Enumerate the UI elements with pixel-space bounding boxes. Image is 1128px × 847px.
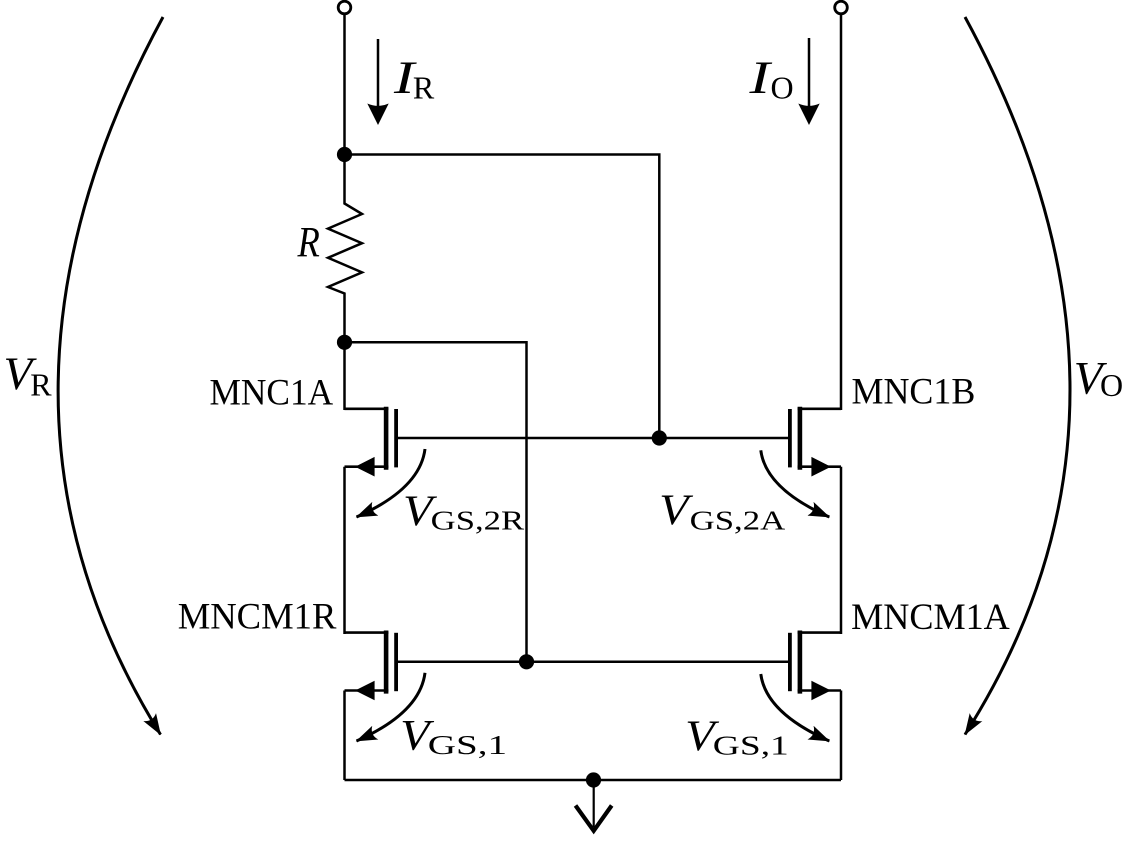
label I_R [393, 51, 435, 106]
wire node B to gate row 2 (second horizontal + mid vertical) [345, 342, 527, 662]
label V_GS,2A [659, 485, 786, 535]
terminal right [835, 1, 848, 14]
svg-text:R: R [413, 70, 435, 106]
wire gate row 1 [396, 437, 790, 440]
label R [297, 218, 320, 266]
vgs arrow 1 right [761, 674, 830, 741]
resistor R [328, 155, 362, 343]
svg-text:O: O [1100, 367, 1123, 403]
current arrow IO [798, 38, 819, 125]
vgs arrow 1 left [357, 673, 426, 741]
wire left top [343, 15, 346, 155]
svg-text:I: I [748, 51, 773, 104]
svg-text:GS,1: GS,1 [428, 730, 507, 760]
wire right column mid [840, 467, 843, 634]
wire left column to MNC1A [343, 342, 346, 410]
label V_GS,1 left [400, 711, 507, 760]
label I_O [748, 51, 793, 106]
voltage arc VR [58, 17, 163, 735]
svg-text:GS,2R: GS,2R [431, 506, 524, 536]
wire right column [840, 15, 843, 411]
wire gate row 2 [396, 661, 790, 664]
vgs arrow 2R [357, 449, 426, 517]
current arrow IR [367, 39, 388, 125]
voltage arc VO [965, 17, 1070, 735]
label V_GS,1 right [685, 711, 789, 760]
wire bottom rail [345, 779, 842, 782]
svg-text:MNCM1A: MNCM1A [851, 597, 1010, 638]
transistor MNCM1A [790, 631, 841, 701]
svg-text:GS,1: GS,1 [713, 730, 789, 760]
transistor MNC1B [790, 407, 841, 477]
node dot gate row 2 [519, 654, 534, 669]
transistor MNC1A [345, 407, 397, 477]
vgs arrow 2A [761, 450, 830, 517]
svg-text:R: R [30, 367, 52, 403]
wire left column bottom [343, 691, 346, 781]
wire right column bottom [840, 691, 843, 781]
ground arrow [576, 780, 612, 831]
svg-text:MNCM1R: MNCM1R [178, 597, 337, 638]
node dot gate row 1 [652, 430, 667, 445]
transistor MNCM1R [345, 631, 397, 701]
svg-text:O: O [771, 70, 794, 106]
svg-text:MNC1B: MNC1B [852, 372, 976, 413]
label V_GS,2R [403, 487, 524, 536]
wire node A to gate node (top horizontal + mid vertical) [345, 155, 660, 439]
node dot above MNC1A [337, 335, 352, 350]
label V_O [1074, 352, 1123, 404]
terminal left [338, 1, 351, 14]
wire left column mid [343, 467, 346, 634]
node dot ground [586, 772, 601, 787]
label V_R [4, 348, 53, 403]
svg-text:MNC1A: MNC1A [210, 373, 334, 414]
svg-text:GS,2A: GS,2A [690, 505, 786, 535]
svg-text:R: R [297, 218, 320, 266]
node dot top-left [337, 147, 352, 162]
